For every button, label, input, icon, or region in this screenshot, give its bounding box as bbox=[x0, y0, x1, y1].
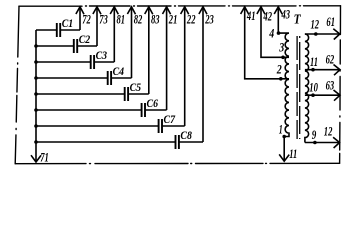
secondary winding w2 (taps 12,11,10,9) bbox=[305, 34, 309, 143]
wire bus to C7 left plate bbox=[36, 125, 159, 127]
svg-text:72: 72 bbox=[82, 12, 91, 27]
svg-text:21: 21 bbox=[168, 12, 177, 27]
wire C7 right plate to terminal riser bbox=[162, 125, 185, 127]
capacitor C1 bbox=[57, 23, 60, 37]
junction on bus at C8 row bbox=[34, 140, 38, 144]
wire bus to C3 left plate bbox=[36, 61, 91, 63]
junction on bus at C7 row bbox=[34, 124, 38, 128]
tap 10 to terminal arrow 63 bbox=[305, 94, 340, 96]
tap 11 to terminal arrow 62 bbox=[305, 69, 340, 71]
terminal arrow 23 bbox=[202, 7, 204, 142]
svg-text:63: 63 bbox=[326, 77, 335, 92]
tap 12 to terminal arrow 61 bbox=[305, 33, 340, 35]
svg-text:11: 11 bbox=[289, 146, 297, 161]
svg-text:C1: C1 bbox=[62, 16, 73, 30]
terminal arrow 73 bbox=[96, 7, 98, 46]
wire C3 right plate to terminal riser bbox=[94, 61, 114, 63]
capacitor C8 bbox=[176, 135, 179, 149]
capacitor C2 bbox=[74, 39, 77, 53]
svg-text:61: 61 bbox=[326, 14, 335, 29]
terminal arrow 82 bbox=[131, 7, 133, 78]
terminal arrow 42 to tap 3 bbox=[261, 7, 283, 57]
wire bus to C8 left plate bbox=[36, 141, 176, 143]
wire C8 right plate to terminal riser bbox=[179, 141, 203, 143]
wire C6 right plate to terminal riser bbox=[145, 109, 167, 111]
svg-text:43: 43 bbox=[281, 7, 291, 22]
wire C5 right plate to terminal riser bbox=[128, 93, 149, 95]
wire bus to C2 left plate bbox=[36, 45, 74, 47]
svg-text:11: 11 bbox=[310, 54, 318, 69]
capacitor C5 bbox=[125, 87, 128, 101]
junction on bus at C2 row bbox=[34, 44, 38, 48]
tap 3 node bbox=[283, 56, 289, 58]
svg-text:23: 23 bbox=[205, 12, 215, 27]
terminal arrow 72 bbox=[79, 7, 81, 30]
enclosure border (dash-dot frame) bbox=[15, 6, 340, 164]
svg-text:22: 22 bbox=[186, 12, 196, 27]
svg-text:2: 2 bbox=[276, 62, 282, 77]
junction on bus at C4 row bbox=[34, 76, 38, 80]
tap 9 to terminal arrow 12 bbox=[305, 142, 339, 144]
junction on bus at C6 row bbox=[34, 108, 38, 112]
svg-text:81: 81 bbox=[117, 12, 126, 27]
svg-text:C6: C6 bbox=[147, 96, 159, 110]
svg-text:C8: C8 bbox=[180, 128, 192, 142]
capacitor C3 bbox=[91, 55, 94, 69]
wire bus to C4 left plate bbox=[36, 77, 108, 79]
svg-text:3: 3 bbox=[278, 40, 284, 55]
svg-text:41: 41 bbox=[246, 8, 255, 23]
svg-text:82: 82 bbox=[134, 12, 143, 27]
primary winding w1 (taps 4,3,2,1) bbox=[278, 33, 289, 136]
svg-text:10: 10 bbox=[309, 79, 318, 94]
svg-text:12: 12 bbox=[324, 123, 333, 138]
svg-text:9: 9 bbox=[312, 127, 317, 142]
terminal arrow 81 bbox=[113, 7, 115, 62]
capacitor C4 bbox=[108, 71, 111, 85]
terminal arrow 71 bbox=[31, 155, 41, 162]
tap 2 node bbox=[281, 78, 289, 80]
svg-text:73: 73 bbox=[99, 12, 108, 27]
terminal arrow 11 (bottom) bbox=[283, 137, 285, 162]
svg-text:62: 62 bbox=[326, 51, 335, 66]
tap 4 node bbox=[277, 31, 281, 35]
terminal arrow 43 to tap 4 bbox=[277, 7, 279, 33]
wire bus to C6 left plate bbox=[36, 109, 142, 111]
svg-text:4: 4 bbox=[269, 25, 275, 40]
junction on bus at C5 row bbox=[34, 92, 38, 96]
svg-text:C7: C7 bbox=[164, 112, 176, 126]
wire bus to C1 left plate bbox=[36, 29, 57, 31]
wire C2 right plate to terminal riser bbox=[77, 45, 97, 47]
svg-text:12: 12 bbox=[311, 16, 320, 31]
transformer core bbox=[297, 36, 300, 139]
common bus wire bbox=[35, 30, 37, 162]
svg-text:83: 83 bbox=[151, 12, 160, 27]
capacitor C7 bbox=[159, 119, 162, 133]
terminal arrow 22 bbox=[184, 7, 186, 126]
wire bus to C5 left plate bbox=[36, 93, 125, 95]
svg-text:71: 71 bbox=[40, 150, 49, 165]
terminal arrow 21 bbox=[166, 7, 168, 110]
terminal arrow 83 bbox=[148, 7, 150, 94]
svg-text:C5: C5 bbox=[130, 80, 142, 94]
svg-text:42: 42 bbox=[263, 9, 273, 24]
junction on bus at C3 row bbox=[34, 60, 38, 64]
svg-text:C2: C2 bbox=[79, 32, 91, 46]
capacitor C6 bbox=[142, 103, 145, 117]
wire C1 right plate to terminal riser bbox=[60, 29, 80, 31]
wire C4 right plate to terminal riser bbox=[111, 77, 131, 79]
svg-text:C3: C3 bbox=[96, 48, 108, 62]
svg-text:C4: C4 bbox=[113, 64, 125, 78]
svg-text:1: 1 bbox=[279, 122, 283, 137]
tap 1 node bbox=[282, 135, 286, 139]
svg-text:T: T bbox=[294, 12, 302, 27]
terminal arrow 41 to tap 2 bbox=[245, 7, 281, 79]
